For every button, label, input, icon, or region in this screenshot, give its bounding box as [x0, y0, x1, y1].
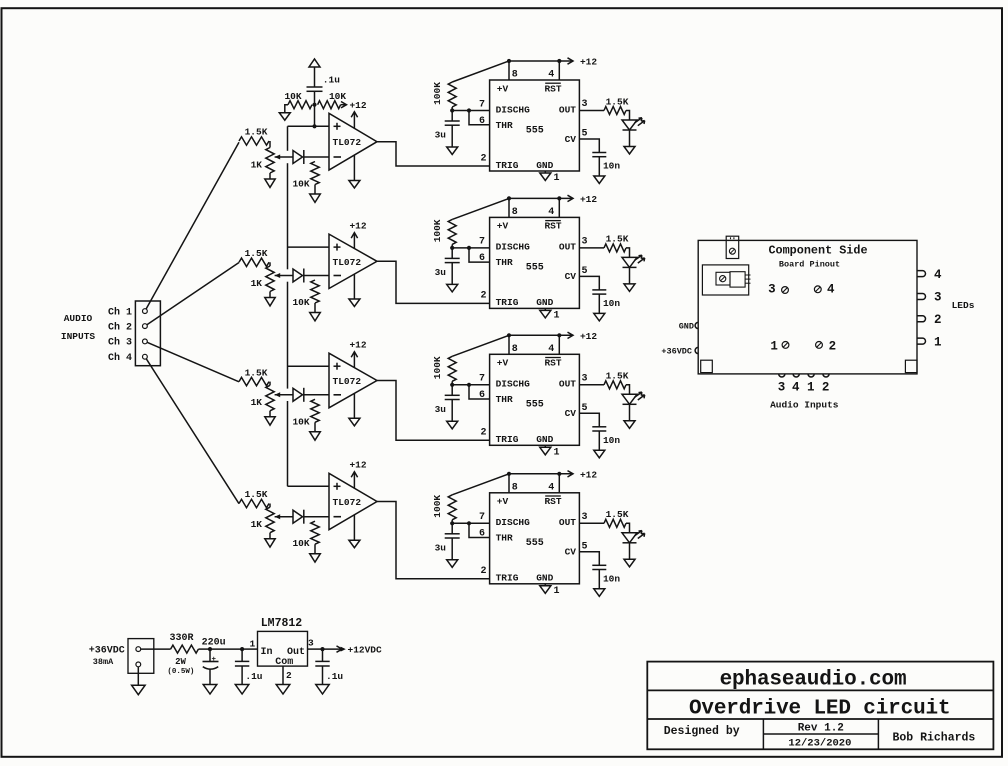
wire to LM7812 pin 1: [242, 648, 257, 650]
svg-text:GND: GND: [536, 160, 553, 171]
svg-text:4: 4: [934, 268, 942, 282]
label AUDIO INPUTS: [61, 313, 96, 342]
svg-text:1: 1: [554, 310, 560, 321]
ground op-amp ch4: [353, 515, 355, 540]
svg-text:3: 3: [778, 381, 786, 395]
svg-text:OUT: OUT: [559, 242, 576, 253]
label pin 8: [512, 483, 518, 494]
svg-text:.1u: .1u: [323, 74, 340, 85]
svg-text:2: 2: [829, 339, 837, 353]
label pin 5: [581, 403, 587, 414]
wire connector to ground: [137, 667, 139, 685]
svg-text:555: 555: [526, 125, 544, 136]
svg-text:3u: 3u: [435, 404, 447, 415]
resistor 100K ch1: [448, 82, 456, 107]
capacitor 10n ch2: [592, 289, 606, 291]
label pin 4: [548, 70, 554, 81]
label pin 8: [512, 207, 518, 218]
svg-text:555: 555: [526, 538, 544, 549]
svg-text:3u: 3u: [435, 267, 447, 278]
label pin 5: [581, 542, 587, 553]
LED tab 3: [917, 294, 926, 300]
wire OUT ch2: [579, 247, 604, 249]
+12 supply arrow op-amp ch3: [353, 352, 355, 368]
svg-text:8: 8: [512, 70, 518, 81]
label pin 1: [554, 310, 560, 321]
wire OUT ch1: [579, 110, 604, 112]
ground: [235, 685, 249, 695]
svg-text:+V: +V: [497, 221, 509, 232]
wire bias to +input: [314, 105, 316, 127]
svg-text:1.5K: 1.5K: [245, 127, 268, 138]
svg-text:+12: +12: [349, 460, 366, 471]
capacitor .1u bias: [307, 86, 323, 88]
label pin 3: [581, 99, 587, 110]
svg-text:7: 7: [479, 99, 485, 110]
node DISCHG junction: [450, 108, 454, 112]
timer 555 U4: [490, 493, 580, 584]
svg-text:TRIG: TRIG: [496, 160, 519, 171]
label pin 1: [554, 586, 560, 597]
svg-text:Board Pinout: Board Pinout: [779, 259, 840, 269]
regulator LM7812: [258, 631, 308, 666]
ground: [265, 179, 275, 187]
wire Ch2 input: [147, 263, 239, 325]
diode D3: [293, 388, 303, 401]
wire LED to ground: [629, 543, 631, 560]
svg-text:+12: +12: [349, 340, 366, 351]
svg-text:1K: 1K: [251, 397, 263, 408]
svg-text:GND: GND: [536, 434, 553, 445]
ground: [310, 554, 321, 562]
label pin 6: [479, 116, 485, 127]
ground: [310, 313, 321, 321]
svg-text:3: 3: [934, 291, 942, 305]
wire pin 4 stub: [558, 198, 560, 217]
+12 supply arrow op-amp ch4: [353, 472, 355, 488]
svg-text:+12: +12: [580, 469, 597, 480]
wire pin 8 stub: [508, 474, 510, 493]
wire Ch1 input: [146, 142, 239, 309]
svg-text:Audio Inputs: Audio Inputs: [770, 400, 839, 411]
svg-text:In: In: [261, 647, 273, 658]
svg-text:4: 4: [548, 207, 554, 218]
ground op-amp ch3: [353, 393, 355, 418]
svg-text:10n: 10n: [603, 573, 620, 584]
notch audio 4: [793, 374, 799, 377]
timer 555 U3: [490, 354, 580, 445]
wire pot to ground: [269, 411, 271, 417]
wire diode to inverting input: [304, 516, 329, 518]
wire +12 rail ch4: [509, 473, 572, 475]
svg-text:1: 1: [554, 447, 560, 458]
wire: [285, 105, 288, 113]
node pin8 rail: [507, 59, 511, 63]
resistor 1.5K input ch2: [239, 258, 269, 266]
wire: [269, 141, 271, 148]
wire: [314, 422, 316, 432]
wire +12VDC out: [323, 648, 345, 650]
LED tab 1: [917, 338, 926, 344]
wire GND pin 1: [544, 171, 546, 173]
svg-text:+12: +12: [349, 220, 366, 231]
svg-text:4: 4: [548, 344, 554, 355]
svg-text:2: 2: [480, 291, 486, 302]
svg-text:AUDIO: AUDIO: [64, 313, 93, 324]
wire to DISCHG pin 7: [452, 384, 489, 386]
svg-text:INPUTS: INPUTS: [61, 331, 96, 342]
wire CV ch3: [579, 413, 599, 427]
resistor 10K ch1 inverting: [311, 162, 319, 185]
board outline Component Side: [698, 240, 917, 374]
svg-text:5: 5: [581, 266, 587, 277]
wire +input: [288, 125, 330, 127]
wire rail to 100K ch4: [452, 474, 509, 495]
label pin 6: [479, 390, 485, 401]
label pin 2: [480, 428, 486, 439]
ground: [265, 298, 275, 306]
svg-text:THR: THR: [496, 533, 513, 544]
label pin 1: [554, 447, 560, 458]
svg-text:10K: 10K: [292, 416, 309, 427]
svg-text:OUT: OUT: [559, 104, 576, 115]
svg-text:1K: 1K: [251, 159, 263, 170]
potentiometer 1K ch2: [266, 266, 274, 292]
wire OUT ch4: [579, 522, 604, 524]
wire to DISCHG pin 7: [452, 522, 489, 524]
title Overdrive LED circuit: [689, 698, 951, 721]
wire: [269, 504, 271, 508]
svg-text:3: 3: [581, 373, 587, 384]
label +36VDC input: [89, 646, 125, 667]
resistor 10K ch4 inverting: [311, 521, 319, 544]
ground: [447, 560, 458, 568]
resistor 1.5K LED ch3: [604, 381, 626, 389]
wire GND pin 1: [544, 445, 546, 447]
ground: [447, 284, 458, 292]
svg-text:10K: 10K: [292, 297, 309, 308]
notch audio 3: [779, 374, 785, 377]
pin Ch1: [143, 309, 148, 314]
wire LED to ground: [629, 267, 631, 284]
wire Ch3 input: [147, 342, 239, 382]
svg-text:330R: 330R: [169, 633, 193, 644]
label pin 6: [479, 253, 485, 264]
pad 3: [768, 283, 776, 297]
svg-text:CV: CV: [565, 271, 577, 282]
svg-text:5: 5: [581, 129, 587, 140]
resistor 100K ch3: [448, 356, 456, 381]
svg-text:220u: 220u: [202, 637, 226, 648]
capacitor 3u ch1: [451, 111, 453, 122]
notch audio 2: [823, 374, 829, 377]
resistor 1.5K LED ch1: [604, 107, 626, 115]
ground 555: [540, 310, 551, 318]
wire diode to inverting input: [304, 275, 329, 277]
svg-text:1: 1: [807, 381, 815, 395]
svg-text:DISCHG: DISCHG: [496, 379, 531, 390]
capacitor 10n ch1: [592, 152, 606, 154]
svg-text:LM7812: LM7812: [261, 617, 303, 630]
capacitor 10n ch4: [592, 564, 606, 566]
svg-text:CV: CV: [565, 408, 577, 419]
resistor 100K ch4: [448, 495, 456, 520]
svg-text:DISCHG: DISCHG: [496, 517, 531, 528]
resistor 1.5K LED ch2: [604, 244, 626, 252]
label Component Side: [768, 244, 867, 258]
svg-text:1.5K: 1.5K: [606, 234, 629, 245]
svg-text:1: 1: [554, 173, 560, 184]
diode D4: [293, 510, 303, 523]
label pin 7: [479, 237, 485, 248]
wire bias bus vertical: [287, 126, 289, 151]
ground (up) above .1u cap: [309, 59, 320, 67]
svg-text:DISCHG: DISCHG: [496, 242, 531, 253]
wire: [626, 111, 630, 121]
label Bob Richards: [892, 731, 975, 744]
wire GND pin 1: [544, 584, 546, 586]
capacitor .1u out: [322, 649, 324, 661]
wire +input: [288, 485, 330, 487]
svg-text:TL072: TL072: [333, 497, 362, 508]
node DISCHG junction: [450, 383, 454, 387]
svg-text:+: +: [212, 656, 217, 664]
svg-text:3: 3: [768, 283, 776, 297]
svg-text:TL072: TL072: [333, 376, 362, 387]
resistor 1.5K input ch3: [239, 377, 269, 385]
jack assembly: [702, 265, 748, 295]
pin Ch4: [143, 354, 148, 359]
pin +36V: [136, 647, 141, 652]
node .1u in: [240, 647, 244, 651]
node pin4 rail: [557, 196, 561, 200]
svg-text:1: 1: [770, 339, 778, 353]
node DISCHG junction: [450, 246, 454, 250]
svg-text:3u: 3u: [435, 542, 447, 553]
label pin 4: [548, 344, 554, 355]
ground: [276, 685, 290, 695]
svg-text:1: 1: [934, 335, 942, 349]
label Ch 3: [108, 337, 132, 349]
pad 1: [770, 339, 778, 353]
svg-text:TRIG: TRIG: [496, 297, 519, 308]
svg-text:3: 3: [581, 99, 587, 110]
label pin 5: [581, 266, 587, 277]
svg-text:10n: 10n: [603, 435, 620, 446]
resistor 10K bias right: [318, 101, 341, 109]
svg-text:Com: Com: [275, 657, 293, 668]
LED tab 2: [917, 316, 926, 322]
node .1u out: [320, 647, 324, 651]
svg-text:2: 2: [480, 153, 486, 164]
wire: [626, 523, 630, 533]
label LEDs: [952, 300, 975, 311]
label Ch 4: [108, 352, 132, 364]
svg-text:2: 2: [286, 670, 292, 681]
ground 555: [540, 586, 551, 594]
potentiometer 1K ch3: [266, 385, 274, 411]
ground op-amp ch1: [353, 155, 355, 181]
ground: [594, 313, 605, 321]
label pin 6: [479, 529, 485, 540]
wire: [314, 91, 316, 104]
svg-text:+36VDC: +36VDC: [661, 347, 692, 357]
svg-text:10K: 10K: [292, 179, 309, 190]
wire to 220u node: [198, 648, 210, 650]
wire THR stub to pin 6: [469, 248, 490, 262]
wire +input: [288, 365, 330, 367]
wire LED to ground: [629, 130, 631, 147]
svg-text:+12VDC: +12VDC: [348, 645, 383, 656]
resistor 10K bias left: [288, 101, 312, 109]
label pin 8: [512, 344, 518, 355]
svg-text:1.5K: 1.5K: [245, 367, 268, 378]
label pin 2: [480, 566, 486, 577]
svg-text:6: 6: [479, 390, 485, 401]
potentiometer 1K ch4: [266, 507, 274, 533]
wire pin 8 stub: [508, 61, 510, 80]
label pin 4: [548, 207, 554, 218]
+12 supply arrow op-amp ch2: [353, 233, 355, 249]
wire to .1u node: [210, 648, 242, 650]
LED tab 4: [917, 271, 926, 277]
wire: [314, 67, 316, 87]
svg-text:THR: THR: [496, 120, 513, 131]
label Rev 1.2: [798, 722, 844, 734]
node THR stub: [467, 383, 471, 387]
capacitor 3u ch2: [451, 248, 453, 259]
pin gnd: [136, 662, 141, 667]
wire to 330R: [141, 648, 171, 650]
capacitor .1u in: [241, 649, 243, 661]
wire pin 8 stub: [508, 335, 510, 354]
svg-text:Component Side: Component Side: [768, 244, 867, 258]
ground: [265, 417, 275, 425]
svg-text:1K: 1K: [251, 278, 263, 289]
svg-text:4: 4: [548, 483, 554, 494]
wire: [314, 544, 316, 554]
wire GND pin 1: [544, 308, 546, 310]
wire rail to 100K ch2: [452, 198, 509, 219]
wire THR stub to pin 6: [469, 385, 490, 399]
svg-text:+12: +12: [580, 194, 597, 205]
svg-text:Designed by: Designed by: [664, 725, 740, 738]
svg-text:CV: CV: [565, 547, 577, 558]
svg-text:OUT: OUT: [559, 379, 576, 390]
ground: [624, 559, 635, 567]
svg-text:7: 7: [479, 374, 485, 385]
wire CV ch4: [579, 552, 599, 566]
capacitor 220u: [209, 649, 211, 661]
svg-text:5: 5: [581, 542, 587, 553]
op-amp U4 TL072: [329, 473, 377, 529]
wire pot to ground: [269, 173, 271, 179]
label pin 8: [512, 70, 518, 81]
svg-text:TL072: TL072: [333, 257, 362, 268]
svg-text:555: 555: [526, 400, 544, 411]
ground: [594, 589, 605, 597]
ground: [203, 685, 217, 695]
svg-text:+12: +12: [580, 57, 597, 68]
diode D1: [293, 151, 303, 164]
wire pin 8 stub: [508, 198, 510, 217]
svg-text:3u: 3u: [435, 130, 447, 141]
label Board Pinout: [779, 259, 840, 269]
wire diode to inverting input: [304, 394, 329, 396]
wire to DISCHG pin 7: [452, 110, 489, 112]
svg-text:TL072: TL072: [333, 137, 362, 148]
svg-text:Overdrive LED circuit: Overdrive LED circuit: [689, 698, 951, 721]
wire rail to 100K ch1: [452, 61, 509, 82]
LED D3: [622, 394, 637, 404]
connector J1 audio inputs: [135, 301, 160, 366]
wire LM7812 out: [308, 648, 323, 650]
svg-text:4: 4: [792, 381, 800, 395]
svg-text:10K: 10K: [292, 538, 309, 549]
svg-text:(0.5W): (0.5W): [167, 668, 194, 676]
ground 555: [540, 173, 551, 181]
label pin 3: [581, 237, 587, 248]
svg-text:+12: +12: [349, 100, 366, 111]
wire: [314, 185, 316, 195]
svg-text:7: 7: [479, 237, 485, 248]
wire Com pin 2 to ground: [282, 666, 284, 684]
label Designed by: [664, 725, 740, 738]
svg-text:TRIG: TRIG: [496, 573, 519, 584]
ground 555: [540, 447, 551, 455]
wire +12 rail ch1: [509, 60, 572, 62]
svg-text:2W: 2W: [175, 657, 186, 667]
svg-text:+V: +V: [497, 358, 509, 369]
svg-text:+V: +V: [497, 83, 509, 94]
ground: [316, 685, 329, 695]
svg-text:100K: 100K: [432, 356, 443, 379]
wire pot to ground: [269, 533, 271, 539]
wire: [626, 248, 630, 258]
svg-text:1.5K: 1.5K: [245, 248, 268, 259]
label pin 7: [479, 512, 485, 523]
label pin 3: [581, 512, 587, 523]
notch +36VDC left: [695, 347, 698, 353]
svg-text:1: 1: [554, 586, 560, 597]
node bias divider mid: [312, 103, 316, 107]
svg-text:8: 8: [512, 344, 518, 355]
label pin 7: [479, 374, 485, 385]
wire THR stub to pin 6: [469, 111, 490, 125]
svg-text:10K: 10K: [329, 91, 346, 102]
pin Ch2: [143, 324, 148, 329]
pad 2: [816, 342, 823, 349]
svg-text:.1u: .1u: [326, 671, 343, 682]
node pin4 rail: [557, 472, 561, 476]
svg-text:Ch 2: Ch 2: [108, 321, 132, 333]
capacitor 3u ch3: [451, 385, 453, 396]
svg-text:OUT: OUT: [559, 517, 576, 528]
svg-text:Ch 4: Ch 4: [108, 352, 132, 364]
svg-text:TRIG: TRIG: [496, 434, 519, 445]
svg-text:10K: 10K: [284, 91, 301, 102]
wire LED to ground: [629, 404, 631, 421]
ground: [310, 432, 321, 440]
ground: [310, 194, 321, 202]
resistor 10K ch2 inverting: [311, 280, 319, 303]
ground: [279, 113, 290, 121]
notch audio 1: [808, 374, 814, 377]
svg-text:RST: RST: [544, 83, 561, 94]
wire op-amp out to TRIG ch2: [377, 261, 490, 303]
svg-text:CV: CV: [565, 134, 577, 145]
svg-text:GND: GND: [679, 322, 694, 332]
